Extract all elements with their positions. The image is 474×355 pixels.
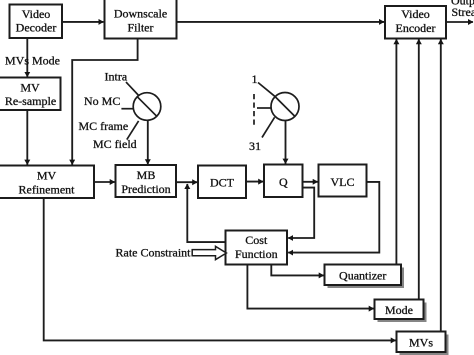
box VLC xyxy=(319,165,367,197)
svg-text:1: 1 xyxy=(252,72,258,86)
S1 No MC contact line xyxy=(121,108,133,110)
switch S1 (MC mode selector: Intra / No MC / MC frame / MC field) xyxy=(121,82,160,140)
box Q xyxy=(264,165,303,198)
wire Quantizer up to Video Encoder xyxy=(395,39,397,264)
wire Q feedback to Cost Function xyxy=(288,188,314,238)
wire MV Refinement to MVs xyxy=(44,198,396,340)
svg-text:Downscale: Downscale xyxy=(114,7,167,21)
wire MB Prediction to DCT xyxy=(177,181,198,183)
shadow Mode xyxy=(378,303,427,323)
svg-text:Q: Q xyxy=(279,175,288,189)
wire DCT to Q xyxy=(246,181,263,183)
S2 contact line from 1 xyxy=(258,83,275,97)
S2 wiper diagonal xyxy=(275,97,295,117)
svg-text:VLC: VLC xyxy=(331,175,355,189)
svg-text:Re-sample: Re-sample xyxy=(5,94,56,108)
wire Video Encoder output stream xyxy=(446,21,473,23)
svg-text:Stream: Stream xyxy=(452,5,474,19)
box Video Encoder xyxy=(385,6,446,39)
svg-text:Encoder: Encoder xyxy=(396,21,436,35)
S2 contact line from 31 xyxy=(262,117,275,137)
wire VLC feedback to Cost Function xyxy=(288,182,379,253)
S2 middle contact line xyxy=(257,107,271,109)
wire Cost Function to Mode xyxy=(247,265,373,309)
wire MV Re-sample down to MV Refinement xyxy=(26,110,28,165)
wire Downscale Filter to Video Encoder xyxy=(177,21,385,23)
svg-text:MB: MB xyxy=(137,168,156,182)
box Cost Function xyxy=(226,231,288,265)
shadow MVs xyxy=(400,335,449,355)
S1 wiper diagonal xyxy=(137,97,157,117)
svg-text:Decoder: Decoder xyxy=(16,21,57,35)
box Mode xyxy=(375,300,424,320)
svg-text:Video: Video xyxy=(22,7,51,21)
wire MVs up to Video Encoder xyxy=(440,39,442,331)
svg-text:MV: MV xyxy=(20,81,40,95)
box DCT xyxy=(198,166,246,199)
S1 circle xyxy=(133,93,161,121)
svg-text:Prediction: Prediction xyxy=(121,182,170,196)
box Downscale Filter (top cut off) xyxy=(105,0,177,39)
svg-text:Function: Function xyxy=(235,247,278,261)
svg-text:Filter: Filter xyxy=(128,21,154,35)
box MV Refinement (left cut) xyxy=(0,166,94,199)
S1 Intra contact line xyxy=(126,82,138,95)
box MB Prediction xyxy=(116,165,177,197)
svg-text:DCT: DCT xyxy=(210,176,235,190)
wire MV Refinement to MB Prediction xyxy=(94,181,115,183)
S2 circle xyxy=(271,93,299,121)
svg-text:MV: MV xyxy=(37,169,57,183)
box Video Decoder xyxy=(10,5,63,39)
svg-text:MC field: MC field xyxy=(93,137,137,151)
svg-text:No MC: No MC xyxy=(84,94,120,108)
svg-text:Quantizer: Quantizer xyxy=(339,269,386,283)
box MV Re-sample (left cut) xyxy=(0,78,61,111)
switch S2 (quantizer scale selector 1..31) xyxy=(254,83,299,138)
svg-text:Cost: Cost xyxy=(245,233,268,247)
rate constraint hollow arrow xyxy=(192,246,226,259)
wire switch1 down to MB Prediction xyxy=(147,120,149,164)
svg-text:Intra: Intra xyxy=(105,70,128,84)
S2 dashed ellipsis line xyxy=(253,94,255,126)
wire Mode up to Video Encoder xyxy=(418,39,420,299)
wire Cost Function up to prediction junction xyxy=(187,184,225,242)
S1 MC field contact line xyxy=(127,121,139,140)
svg-text:MVs: MVs xyxy=(409,335,433,349)
svg-text:Mode: Mode xyxy=(385,303,413,317)
svg-text:Mode: Mode xyxy=(32,54,60,68)
box Quantizer xyxy=(325,265,402,286)
svg-text:Video: Video xyxy=(401,7,430,21)
svg-text:31: 31 xyxy=(249,139,261,153)
wire switch2 down to Q xyxy=(285,121,287,164)
svg-text:Rate Constraint: Rate Constraint xyxy=(116,245,192,259)
wire Video Decoder down to MV Re-sample xyxy=(26,38,28,77)
wire Q to VLC xyxy=(303,181,318,183)
svg-text:Refinement: Refinement xyxy=(19,183,76,197)
wire Video Decoder to Downscale Filter xyxy=(62,21,103,23)
wire Downscale Filter down-left-down to MV Refinement xyxy=(72,39,137,165)
svg-text:MC frame: MC frame xyxy=(79,119,129,133)
svg-text:MVs: MVs xyxy=(5,54,29,68)
shadow Quantizer xyxy=(328,268,405,289)
wire Cost Function to Quantizer xyxy=(271,265,323,276)
box MVs xyxy=(397,332,446,353)
